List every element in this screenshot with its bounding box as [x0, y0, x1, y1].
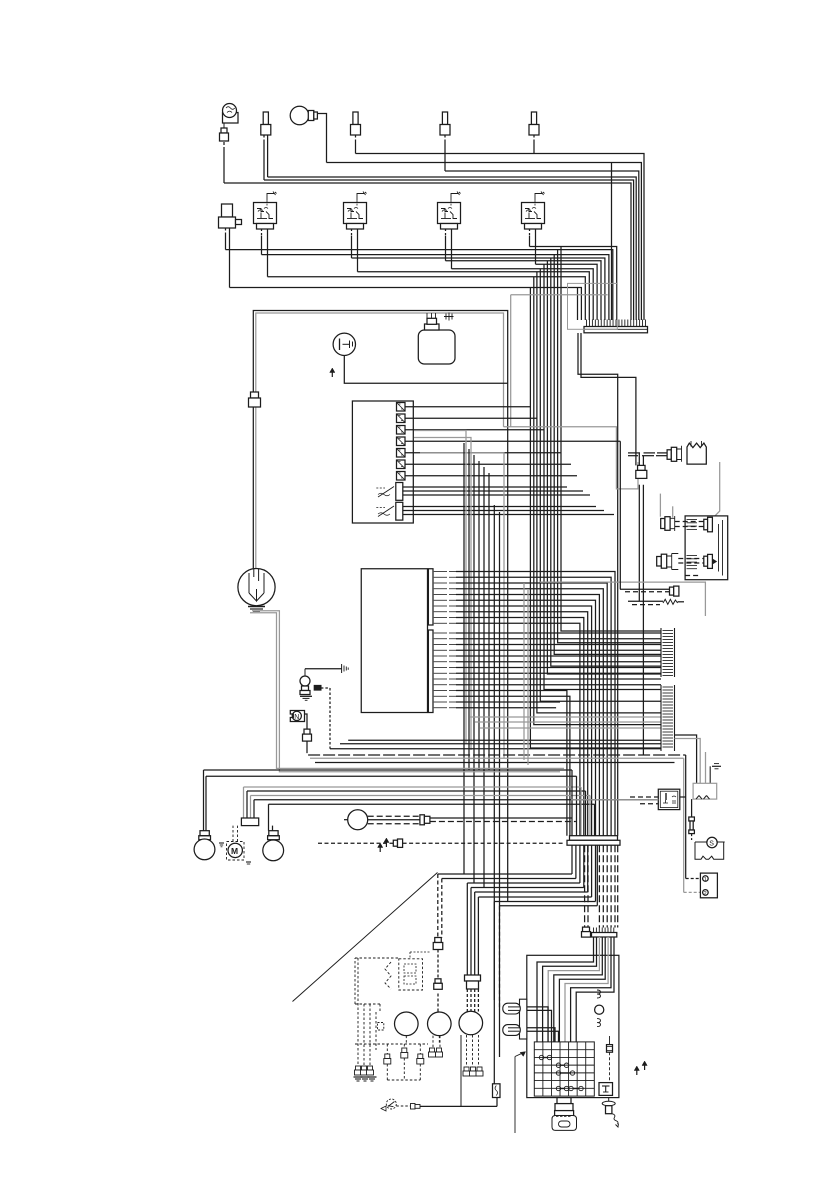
- wire CDI lower pin 12: [456, 696, 570, 835]
- connector brake lead: [393, 839, 402, 847]
- wire exit 6: [478, 845, 591, 975]
- wire mid drop 1: [463, 443, 465, 874]
- fuse main: [689, 799, 695, 840]
- connector neutral switch: [304, 729, 310, 734]
- wire mid drop 6: [488, 473, 490, 770]
- wire harness branch 4: [551, 258, 661, 666]
- wire relay bus 7: [452, 269, 594, 320]
- connector block CB1: [661, 628, 675, 677]
- connector cluster small 2: [361, 1066, 368, 1075]
- rectifier / regulator box: [685, 516, 728, 580]
- spark plug cap 3: [442, 112, 447, 125]
- connector under rotor 2 (pair): [429, 1036, 443, 1057]
- ground flasher: [248, 607, 265, 612]
- wire trunk low 3: [598, 845, 600, 927]
- wire gray stator leads: [660, 462, 719, 518]
- svg-text:1: 1: [704, 877, 707, 883]
- wire relay bus 10: [230, 288, 582, 321]
- wire relay R3 leads: [446, 229, 452, 269]
- wire cluster links: [355, 1036, 439, 1080]
- headlight bulb E1: [290, 106, 317, 125]
- spark plug cap 4: [531, 112, 536, 125]
- resistor R5 (regulator): [687, 441, 706, 464]
- wire relay R4 leads: [530, 229, 536, 265]
- wire CDI lower pin 5: [456, 655, 661, 657]
- fuse F3: [397, 426, 406, 435]
- wire fuse out 1: [405, 406, 530, 408]
- CDI pin hatches upper: [434, 572, 456, 624]
- wire exit 1: [438, 845, 572, 937]
- connector above meter: [583, 927, 590, 932]
- alternator rotor circle 2: [428, 1012, 452, 1036]
- wire gray weave row 1: [470, 716, 661, 718]
- wire fuse out 13: [403, 514, 614, 516]
- junction block headlamp: [241, 818, 258, 826]
- harness outline (gray): [568, 283, 618, 329]
- speedometer cable boss: [503, 999, 527, 1039]
- relay R4: [522, 203, 545, 224]
- battery: [693, 783, 717, 799]
- fuse F2: [397, 414, 406, 423]
- wire fuse out 5: [405, 452, 561, 454]
- wire exit 2: [442, 845, 576, 937]
- ground oil sw small: [300, 696, 312, 700]
- wire mid drop 5: [483, 467, 485, 888]
- wire top bus 1: [356, 154, 645, 321]
- wire harness branch 7: [540, 269, 661, 701]
- meter ignition contact: [599, 1083, 613, 1096]
- callout line to meter: [515, 1052, 526, 1133]
- starter switch box: [700, 873, 717, 898]
- wire trunk low 7: [614, 845, 616, 927]
- wire harness branch 5: [547, 261, 661, 674]
- wire CDI upper pin 2: [456, 577, 611, 835]
- wire gray weave drop 1: [523, 583, 525, 760]
- wire CDI lower pin 13: [456, 701, 560, 703]
- ignition switch contacts S1a: [376, 483, 403, 501]
- connector bottom: [411, 1104, 421, 1110]
- wire CDI lower pin 1: [456, 632, 661, 634]
- wire comb stub B (to charging plug): [581, 333, 636, 465]
- connector stator main: [465, 975, 481, 989]
- wire lamp bus 4: [247, 790, 586, 792]
- wire tail lamp to trunk: [430, 818, 576, 822]
- wire comb stub A (to trunk): [578, 333, 618, 836]
- battery plus mark: [710, 764, 721, 784]
- wire mid drop 4: [478, 461, 480, 770]
- meter fuse: [607, 1036, 613, 1083]
- wire mid drop long 2: [499, 512, 501, 1057]
- wire trunk low 4: [602, 845, 604, 927]
- relay R2: [344, 203, 367, 224]
- wire gray link: [504, 295, 684, 893]
- wire relay bus 3: [262, 255, 609, 320]
- wire CDI lower pin 14: [456, 707, 556, 709]
- wire relay R1 leads: [262, 229, 268, 277]
- wire bottom bus 5: [315, 762, 675, 764]
- horn B1: [223, 104, 239, 124]
- connector CN3 (meter comb): [592, 928, 617, 938]
- wire meter left feeds: [527, 1007, 559, 1042]
- wire CDI upper pin 1: [456, 572, 615, 836]
- spark plug cap 1: [263, 112, 268, 125]
- svg-text:2: 2: [704, 891, 707, 897]
- meter grid: [534, 1042, 594, 1096]
- wire fuse out 11: [403, 506, 596, 508]
- wire exit 7: [494, 845, 595, 1000]
- connector charging plug: [638, 465, 646, 470]
- wire gray drop 3: [420, 453, 504, 759]
- connector under rotor 3 (triple): [463, 1035, 483, 1076]
- wire gray weave row 2: [475, 721, 661, 723]
- wire trunk low 2: [587, 845, 589, 927]
- CDI unit U1: [361, 569, 433, 713]
- sidestand box dashed: [378, 1023, 384, 1031]
- connector cluster small 3: [367, 1066, 374, 1075]
- wire battery feeds: [675, 735, 706, 783]
- wire fuse out 8: [403, 486, 567, 488]
- alternator rotor circle 3: [459, 1011, 483, 1035]
- fuse F5: [397, 449, 406, 458]
- arrow marker 1: [331, 370, 333, 377]
- wire lamp bus 2: [206, 775, 577, 777]
- wire bottom bus 2: [340, 743, 661, 745]
- CDI pin hatches lower: [434, 633, 456, 708]
- wire sensor leads: [226, 228, 230, 288]
- arrow marker 2: [379, 845, 381, 852]
- motor M (headlight adjuster): [227, 826, 245, 860]
- wire relay R2 leads: [352, 229, 358, 272]
- wire exit 3: [467, 845, 580, 975]
- wire fuse out 2: [405, 417, 537, 419]
- wire harness branch 6: [544, 264, 661, 689]
- wire fuse out 7: [405, 475, 577, 477]
- wire starter main lead: [620, 441, 701, 892]
- wire fuse out 10: [403, 494, 590, 496]
- wire plug cap 1 (left lead): [263, 135, 265, 180]
- wire fuse out 12: [403, 510, 604, 512]
- wire top bus 6: [224, 183, 631, 320]
- wire lamp bus 5: [251, 795, 591, 797]
- wire main loop (inner, gray): [256, 313, 504, 569]
- harness outline gray (right-mid): [540, 582, 705, 616]
- wire brake dashed lead: [318, 842, 393, 844]
- fuse F4: [397, 437, 406, 446]
- relay R3: [438, 203, 461, 224]
- ground at coil: [444, 313, 454, 321]
- wire tail lamp leads: [368, 816, 420, 824]
- resistor R6: [628, 599, 684, 604]
- connector oil switch: [314, 686, 330, 749]
- connector cluster mid 1: [384, 1054, 391, 1064]
- wire CDI lower pin 3: [456, 644, 661, 646]
- wire CDI lower pin 9: [456, 678, 661, 680]
- wire fuse out 4: [405, 440, 620, 442]
- wire CDI lower pin 8: [456, 672, 661, 674]
- wire fuse out 9: [403, 490, 583, 492]
- wire branch down mid: [611, 163, 613, 321]
- wire CDI upper pin 10: [456, 623, 580, 835]
- wire mid drop 3: [473, 455, 475, 883]
- wire gray weave drop 2: [527, 590, 529, 765]
- wire top bus 3: [445, 171, 639, 320]
- wire neutral lead: [307, 741, 686, 755]
- wire harness branch 2: [558, 250, 661, 643]
- wire gray weave row 3: [480, 727, 661, 729]
- wire top bus 5: [264, 180, 634, 320]
- meter grid contacts: [539, 1055, 583, 1090]
- wire mid drop 2: [468, 449, 470, 770]
- wire meter internal runs: [537, 937, 614, 1042]
- connector alternator lower: [657, 554, 679, 570]
- ground oil switch line: [342, 664, 349, 673]
- wire lamp bus drops right: [572, 770, 595, 836]
- resistor assembly leads: [628, 453, 667, 456]
- wire lamp bus 1: [204, 769, 573, 771]
- svg-text:N: N: [294, 714, 299, 721]
- connector CN2 (lower bar): [567, 836, 620, 846]
- wire trunk low 1: [584, 845, 586, 927]
- connector CN1 (main harness comb): [584, 320, 648, 333]
- wire to pickup: [437, 994, 439, 1013]
- meter bulb 2: [597, 1019, 601, 1027]
- kill switch S2: [333, 333, 355, 355]
- wire harness branch 8: [537, 272, 661, 713]
- wire regulator drop pair: [639, 453, 643, 755]
- wire starter relay leads: [571, 797, 686, 804]
- meter bulb lamp: [595, 1005, 604, 1014]
- fuse box F: [352, 401, 413, 523]
- wire lamp drops: [204, 770, 273, 831]
- wire bus extra vertical: [577, 288, 579, 321]
- connector resistor: [667, 446, 681, 462]
- wire CDI lower pin 6: [456, 661, 661, 663]
- wire exit 8: [500, 845, 598, 1010]
- wire rectifier links: [675, 522, 704, 576]
- wire CDI upper pin 8: [456, 612, 588, 836]
- wire CDI upper pin 4: [456, 589, 603, 836]
- wire harness branch 9: [534, 277, 661, 725]
- wire CDI lower pin 10: [456, 684, 661, 686]
- wire relay bus 4: [352, 258, 605, 320]
- wire CDI lower pin 7: [456, 667, 661, 669]
- wire trunk low 8: [617, 845, 619, 927]
- ignition coil T1: [418, 313, 455, 364]
- connector cluster small 1: [355, 1066, 362, 1075]
- wire gray drop 2: [414, 438, 471, 751]
- connector mid-right: [620, 586, 679, 596]
- wire relay bus 6: [536, 264, 598, 320]
- neutral switch: [290, 711, 307, 730]
- mount bolt: [602, 1098, 618, 1127]
- wire fuse out 6: [405, 463, 571, 465]
- wire plug cap 2: [355, 135, 357, 154]
- spark plug cap 2: [353, 112, 358, 125]
- connector ignition lead 2: [435, 979, 441, 984]
- sensor B2: [219, 204, 242, 228]
- connector tail lamp: [420, 815, 430, 825]
- wire exit 5: [475, 845, 588, 975]
- wire lamp bus 6: [254, 799, 658, 801]
- alternator rotor circle 1: [395, 1012, 419, 1036]
- wire lamp bus 7: [269, 803, 595, 805]
- svg-text:M: M: [231, 846, 238, 856]
- wire bottom run: [396, 1098, 497, 1107]
- meter assembly box: [527, 955, 619, 1097]
- wire brake lead to trunk: [403, 842, 565, 844]
- wire lamp bus 3: [244, 786, 582, 788]
- wire CDI upper pin 5: [456, 595, 599, 836]
- headlight bulb left: [194, 831, 215, 860]
- wire harness branch 1: [561, 247, 661, 632]
- wire bottom bus 3: [330, 748, 661, 750]
- wire plug cap 3: [444, 135, 446, 171]
- wire bottom bus 4 (gray): [310, 757, 684, 759]
- connector on loop: [251, 392, 259, 398]
- connector ignition lead 1: [435, 938, 442, 943]
- wire main loop (battery feed, outer): [253, 311, 507, 902]
- frame diagonal: [293, 873, 438, 1002]
- wire CDI lower pin 11: [456, 691, 567, 836]
- connector block CB2: [661, 685, 675, 751]
- arrow marker 3: [385, 840, 387, 847]
- arrow marker 5: [644, 1063, 646, 1070]
- starter motor: [695, 837, 725, 859]
- ignition lock cylinder: [552, 1098, 577, 1131]
- wire lamp to bus: [317, 114, 326, 163]
- connector on horn lead: [221, 128, 227, 133]
- connector cluster mid 2: [401, 1048, 408, 1058]
- wire exit 4: [471, 845, 584, 975]
- wire relay bus 9: [268, 277, 586, 320]
- arrow marker 4: [636, 1068, 638, 1075]
- wire CDI upper pin 3: [456, 583, 607, 836]
- wire relay bus 5: [446, 261, 602, 320]
- wire kill switch: [344, 356, 507, 384]
- relay R7 (starter relay): [658, 789, 680, 809]
- svg-text:S: S: [709, 841, 714, 848]
- wire fuse out 3: [405, 429, 544, 431]
- pickup coil symbol: [385, 952, 430, 990]
- oil pressure switch: [300, 669, 342, 695]
- wire stator leads: [467, 989, 478, 1012]
- wire horn to bus: [223, 123, 225, 183]
- fuse F6: [397, 460, 406, 469]
- wire CDI lower pin 2: [456, 638, 661, 640]
- fuse sensor lower: [493, 1084, 501, 1098]
- wire plug cap 4: [533, 135, 535, 154]
- wire gray jumper at comb: [511, 294, 608, 296]
- wire trunk low 6: [610, 845, 612, 927]
- fuse F7: [397, 472, 406, 481]
- wire top bus 4: [268, 177, 637, 320]
- wire gray drop 1: [414, 431, 466, 744]
- wire CDI upper pin 9: [456, 618, 584, 836]
- ignition switch contacts S1b: [376, 502, 403, 520]
- headlight bulb right: [263, 831, 284, 861]
- tail lamp: [344, 810, 368, 830]
- wire ignition lead: [437, 950, 439, 979]
- wire relay bus 2: [226, 250, 613, 320]
- ground cluster: [354, 1077, 377, 1081]
- relay R1: [254, 203, 277, 224]
- connector alternator upper: [661, 516, 675, 531]
- wire plug cap 1 (right lead): [267, 135, 269, 177]
- wire CDI upper pin 7: [456, 606, 592, 836]
- wire relay bus 1: [530, 247, 617, 321]
- wire gray flasher return: [250, 611, 564, 772]
- wire CDI upper pin 6: [456, 600, 596, 835]
- ground motor: [219, 843, 251, 864]
- wire mid drop long 1: [493, 505, 495, 1084]
- wire top bus 2: [327, 163, 642, 321]
- turn signal relay / flasher: [238, 569, 275, 606]
- wire trunk low 5: [606, 845, 608, 927]
- wire bottom bus 1: [348, 739, 661, 741]
- connector cluster mid 3: [417, 1054, 424, 1064]
- fuse F1: [397, 403, 406, 412]
- ground bottom-left: [381, 1099, 396, 1111]
- meter bulb 1: [597, 990, 601, 998]
- wire harness branch 3: [554, 255, 661, 655]
- wire rotor3 to bottom run: [460, 1035, 462, 1106]
- wire harness branch 10: [530, 288, 661, 749]
- wire CDI lower pin 4: [456, 649, 661, 651]
- wire cluster dashed harness: [355, 958, 399, 1066]
- wire relay bus 8: [358, 272, 590, 320]
